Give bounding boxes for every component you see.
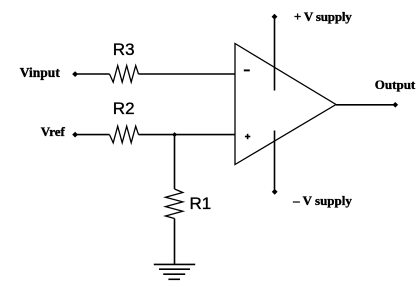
resistor R3 [110,66,139,83]
svg-text:Vinput: Vinput [20,65,61,80]
terminal -V supply [272,189,278,195]
wire +V supply to op-amp [274,17,276,91]
svg-text:R2: R2 [113,99,135,118]
wire R3 to op-amp inverting input [139,73,236,75]
svg-text:Output: Output [375,77,416,92]
ground [154,264,195,279]
terminal Vinput [72,71,78,77]
op-amp inverting pin minus sign [244,69,250,71]
svg-text:R1: R1 [190,194,212,213]
svg-text:R3: R3 [113,40,135,59]
svg-text:Vref: Vref [41,124,66,139]
wire junction to R1 [174,135,176,189]
svg-text:+ V supply: + V supply [294,9,352,24]
wire Vref to R2 [76,134,110,136]
wire Vinput to R3 [76,73,110,75]
op-amp U1 [235,44,336,165]
resistor R2 [110,126,139,143]
wire R2 to op-amp non-inverting input [139,134,236,136]
terminal Vref [72,132,78,138]
svg-text:– V supply: – V supply [292,193,352,208]
op-amp non-inverting pin plus sign [245,134,250,139]
terminal +V supply [272,14,278,20]
resistor R1 [166,189,183,219]
wire op-amp to -V supply [274,131,276,192]
wire op-amp output [336,104,395,106]
wire R1 to ground [174,219,176,265]
junction node at R2/R1 [172,132,177,137]
terminal Output [393,102,399,108]
